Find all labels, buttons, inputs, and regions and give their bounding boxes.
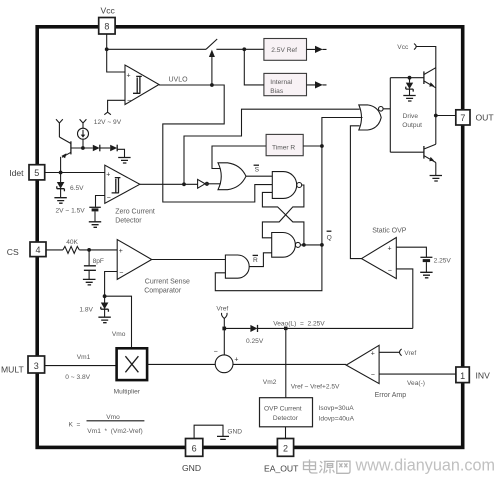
node Q-bar rail: [320, 243, 324, 247]
wire ZCD minus to reference: [96, 196, 105, 207]
capacitor 8pF: [84, 250, 96, 279]
transistor Q1 top driver: [424, 68, 436, 88]
svg-text:Vcc: Vcc: [397, 44, 409, 51]
svg-text:INV: INV: [476, 371, 491, 381]
node on UVLO output: [210, 83, 214, 87]
node zener tap: [408, 76, 412, 80]
svg-text:Timer R: Timer R: [272, 145, 295, 152]
ground after diodes: [118, 158, 130, 164]
svg-text:4: 4: [35, 245, 40, 255]
pin 6 (GND): [186, 439, 203, 457]
OVP Current Detector block: [260, 398, 313, 427]
op-amp U9 Error Amp: [346, 345, 379, 383]
K factor equation: [69, 414, 145, 435]
NAND gate U3 (latch set side): [272, 172, 301, 199]
OR gate (restart): [218, 163, 246, 190]
multiplier X block: [117, 348, 148, 380]
svg-text:+: +: [127, 73, 131, 80]
svg-text:Output: Output: [402, 122, 422, 129]
svg-text:Multiplier: Multiplier: [114, 388, 141, 395]
svg-text:EA_OUT: EA_OUT: [264, 464, 299, 474]
wire Veao rail: [224, 327, 412, 329]
pin 4 (CS): [30, 242, 46, 257]
svg-text:−: −: [119, 270, 123, 277]
svg-text:+: +: [234, 357, 238, 364]
svg-text:Vm1: Vm1: [77, 354, 91, 361]
svg-text:+: +: [371, 351, 375, 358]
transistor Q3 (Idet clamp): [59, 137, 71, 173]
pin 1 (INV): [456, 367, 469, 383]
battery 2V/1.5V reference: [89, 207, 101, 221]
svg-text:Bias: Bias: [270, 88, 284, 95]
wire base rail: [71, 147, 93, 149]
svg-text:2.25V: 2.25V: [434, 257, 452, 264]
svg-text:Internal: Internal: [270, 79, 293, 86]
ground below driver: [430, 176, 442, 182]
svg-text:MULT: MULT: [1, 365, 25, 375]
svg-text:0.25V: 0.25V: [246, 338, 264, 345]
svg-text:Static OVP: Static OVP: [372, 227, 407, 234]
svg-text:2: 2: [283, 444, 288, 454]
IC outline frame: [37, 27, 463, 448]
svg-text:Current Sense: Current Sense: [145, 278, 190, 285]
zener 6.5V: [57, 173, 65, 198]
svg-text:Detector: Detector: [115, 217, 142, 224]
wire multiplier to summing node: [147, 363, 215, 365]
pin 7 (OUT): [456, 110, 470, 125]
wire bottom driver emitter to ground: [435, 163, 437, 176]
wire Q-bar output rail: [300, 118, 362, 245]
wire pin5 to ZCD plus input: [45, 172, 105, 174]
svg-text:R: R: [253, 257, 258, 264]
wire Vref down to node: [223, 318, 225, 355]
wire D2 to ground: [117, 149, 124, 157]
wire pin8 to node: [107, 34, 125, 72]
wire Timer R to Q-bar rail: [303, 145, 322, 147]
wire static OVP to NOR input: [350, 126, 361, 259]
arrow 2.5V Ref output: [307, 46, 327, 53]
ground below 8pF: [83, 279, 96, 285]
wire Vcc rail to switch: [107, 48, 206, 50]
NOR gate U7 (driver logic): [359, 105, 383, 130]
wire latch cross-couple U4 out to U3: [262, 192, 304, 245]
wire CS comparator output: [152, 259, 226, 261]
svg-text:Drive: Drive: [403, 113, 419, 120]
node base rail: [81, 146, 85, 150]
wire summing node to error amp: [233, 363, 346, 365]
svg-text:6: 6: [192, 444, 197, 454]
svg-text:+: +: [106, 172, 110, 179]
wire OR output S: [246, 175, 272, 177]
wire ZCD output to drive NOR: [184, 109, 360, 184]
wire Veao to OVP current detector: [285, 328, 287, 397]
wire OVP minus to Veao rail: [396, 269, 413, 329]
svg-text:Comparator: Comparator: [144, 287, 182, 294]
wire UVLO output to latch: [159, 85, 272, 202]
wire bottom driver base: [390, 151, 424, 153]
battery 2.25V OVP threshold: [420, 257, 432, 272]
wire Vcc to top driver collector: [416, 47, 436, 65]
svg-text:www.dianyuan.com: www.dianyuan.com: [355, 456, 495, 474]
arrow Internal Bias output: [307, 81, 327, 88]
svg-text:Detector: Detector: [273, 415, 299, 422]
R-bar net label: [253, 255, 258, 264]
svg-text:GND: GND: [182, 463, 201, 473]
svg-text:3: 3: [34, 361, 39, 371]
svg-text:8pF: 8pF: [93, 258, 104, 265]
svg-text:Idet: Idet: [9, 168, 24, 178]
svg-text:+: +: [388, 246, 392, 253]
zener 1.8V: [101, 296, 109, 317]
svg-text:S: S: [255, 167, 260, 174]
resistor 40K: [63, 246, 79, 253]
svg-text:Isovp=30uA: Isovp=30uA: [319, 405, 355, 412]
wire latch feedback to AND input: [215, 245, 322, 291]
wire ZCD output: [140, 183, 198, 185]
wire NOR input from Q-bar (drawn above): [322, 117, 363, 119]
S-bar net label: [254, 165, 260, 173]
node at Vcc rail split: [105, 47, 109, 51]
switch control arrow from UVLO: [209, 50, 215, 85]
wire EA minus to pin1: [379, 373, 456, 375]
svg-text:Veao(L) = 2.25V: Veao(L) = 2.25V: [273, 320, 325, 327]
svg-text:−: −: [214, 349, 218, 356]
ground below 6.5V zener: [54, 198, 66, 204]
wire pin3 to multiplier: [45, 365, 117, 367]
op-amp UVLO comparator: [125, 65, 159, 105]
Q-bar net label: [327, 231, 332, 241]
wire switch to 2.5V Ref: [216, 48, 264, 50]
Isovp Idovp labels: [319, 405, 355, 423]
pin 5 (Idet): [29, 165, 45, 180]
node U4 output cross tap: [302, 243, 306, 247]
svg-text:Zero Current: Zero Current: [115, 208, 155, 215]
wire OVP plus to 2.25V: [396, 247, 426, 257]
wire OVP detector to pin 2: [285, 427, 287, 439]
svg-text:12V ~ 9V: 12V ~ 9V: [94, 119, 122, 126]
svg-text:CS: CS: [7, 247, 19, 257]
svg-text:1.8V: 1.8V: [79, 306, 93, 313]
Y terminal above transistor: [56, 119, 63, 137]
Y terminal above current source: [80, 119, 87, 128]
NAND gate U4 (latch reset side): [272, 233, 301, 258]
summing node (Vm2 - Vref): [214, 349, 239, 373]
svg-text:Idovp=40uA: Idovp=40uA: [319, 416, 355, 423]
ground below 2.25V: [420, 272, 432, 278]
pin 8 (Vcc): [99, 18, 115, 35]
svg-text:−: −: [127, 98, 131, 105]
Internal Bias block: [264, 73, 307, 95]
wire resistor to CS comparator: [79, 249, 117, 251]
Timer R block: [266, 134, 303, 155]
svg-text:−: −: [107, 195, 111, 202]
svg-text:Vcc: Vcc: [101, 6, 116, 16]
svg-text:Error Amp: Error Amp: [375, 392, 407, 399]
current source I1: [78, 128, 89, 139]
svg-text:+: +: [119, 248, 123, 255]
svg-text:Vmo: Vmo: [106, 414, 120, 421]
svg-text:Vea(-): Vea(-): [407, 380, 425, 387]
svg-text:−: −: [388, 267, 392, 274]
wire AND to R input of latch: [249, 253, 272, 267]
op-amp U5 Current Sense Comparator: [117, 240, 152, 280]
svg-text:Vm2: Vm2: [263, 379, 277, 386]
svg-text:5: 5: [34, 168, 39, 178]
wire D1 to D2: [100, 147, 110, 149]
node ZCD output: [182, 182, 186, 186]
Drive Output label: [402, 113, 422, 129]
op-amp U2 Zero Current Detector: [105, 165, 140, 203]
svg-text:1: 1: [460, 371, 465, 381]
svg-text:6.5V: 6.5V: [70, 185, 84, 192]
zener drive clamp: [406, 78, 413, 96]
inverter buffer after ZCD: [198, 179, 209, 188]
ground below drive zener: [403, 96, 415, 102]
Vref Y terminal: [222, 313, 228, 319]
svg-text:7: 7: [460, 113, 465, 123]
2.5V Ref block: [264, 39, 307, 61]
wire UVLO minus input stub: [104, 100, 125, 114]
node CS filter tap: [87, 248, 91, 252]
svg-text:Vref: Vref: [216, 306, 228, 313]
wire pin4 to resistor: [46, 249, 63, 251]
svg-text:K =: K =: [69, 422, 81, 429]
Vcc hook terminal: [414, 44, 416, 50]
svg-text:−: −: [371, 372, 375, 379]
transistor Q2 bottom driver: [424, 144, 436, 162]
node Vref junction: [222, 327, 226, 331]
svg-text:GND: GND: [227, 428, 242, 435]
wire Vmo to multiplier: [105, 296, 132, 348]
wire to pin 7: [436, 115, 456, 117]
svg-text:OVP Current: OVP Current: [264, 405, 302, 412]
node Timer R at Q-bar rail: [320, 144, 324, 148]
ground at pin6: [217, 436, 229, 439]
node multiplier output: [103, 294, 107, 298]
wire Timer R to OR input: [212, 146, 266, 169]
wire EA plus to Vref hook: [379, 351, 399, 353]
wire current source to base rail: [82, 139, 84, 148]
pin 3 (MULT): [28, 356, 45, 373]
svg-text:2.5V Ref: 2.5V Ref: [271, 47, 297, 54]
diode D1: [93, 145, 100, 152]
wire inverter to OR gate: [209, 183, 221, 185]
wire CS minus input: [105, 272, 118, 297]
diode D2: [110, 145, 117, 152]
node driver output: [434, 114, 438, 118]
Zero Current Detector label: [115, 208, 155, 224]
wire to Internal Bias: [244, 49, 264, 85]
svg-text:8: 8: [104, 21, 109, 31]
svg-text:Vref ~ Vref+2.5V: Vref ~ Vref+2.5V: [291, 384, 340, 391]
node on Idet wire: [59, 171, 63, 175]
pin 2 (EA_OUT): [277, 439, 293, 457]
svg-text:UVLO: UVLO: [169, 76, 189, 83]
svg-text:40K: 40K: [66, 239, 78, 246]
op-amp U8 Static OVP comparator: [362, 238, 397, 279]
AND gate U6 (reset): [225, 255, 249, 278]
svg-text:Vmo: Vmo: [112, 331, 126, 338]
svg-text:OUT: OUT: [476, 113, 495, 123]
node at internal bias tap: [242, 47, 246, 51]
svg-text:0 ~ 3.8V: 0 ~ 3.8V: [65, 374, 90, 381]
Current Sense Comparator label: [144, 278, 190, 294]
wire driver output node: [435, 64, 437, 144]
watermark dianyuan: [304, 460, 351, 474]
svg-text:Vref: Vref: [404, 350, 416, 357]
wire pin6 to ground: [194, 425, 223, 438]
svg-text:Vm1 * (Vm2-Vref): Vm1 * (Vm2-Vref): [87, 428, 142, 435]
wire top driver base: [390, 77, 424, 79]
Vref hook terminal at EA: [400, 349, 402, 356]
wire NOR output to driver bases: [383, 78, 390, 153]
svg-text:2V ~ 1.5V: 2V ~ 1.5V: [56, 207, 86, 214]
wire latch cross-couple Q to U4: [262, 185, 304, 238]
ground below battery: [89, 222, 101, 228]
ground below 1.8V zener: [98, 317, 110, 323]
diode 0.25V offset: [250, 325, 257, 332]
svg-text:Q: Q: [327, 234, 332, 241]
switch blade (UVLO controlled): [206, 39, 217, 49]
node OVP detector tap: [284, 327, 288, 331]
